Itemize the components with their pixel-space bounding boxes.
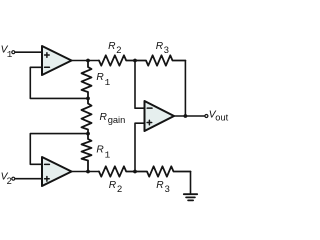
- svg-text:3: 3: [165, 184, 170, 194]
- wire V2 lead: [15, 178, 42, 180]
- svg-text:out: out: [215, 113, 228, 123]
- svg-text:R: R: [156, 180, 164, 191]
- node B2 junction: [86, 132, 90, 136]
- resistor R3 bottom: [135, 166, 191, 176]
- wire node D1 to U3 minus input: [135, 61, 145, 109]
- ground: [184, 194, 197, 200]
- wire V1 lead: [15, 51, 42, 53]
- node A junction: [86, 59, 90, 63]
- wire U1 feedback: [30, 67, 88, 98]
- svg-text:2: 2: [116, 45, 121, 55]
- svg-text:R: R: [96, 72, 104, 83]
- svg-text:2: 2: [7, 176, 12, 186]
- wire ground lead: [190, 172, 192, 194]
- svg-text:R: R: [100, 112, 108, 123]
- op-amp U3 plus pin: [147, 120, 152, 125]
- wire node D2 to U3 plus input: [135, 123, 145, 171]
- node C junction: [86, 170, 90, 174]
- node D1 junction top: [133, 59, 137, 63]
- op-amp U3 minus pin: [147, 107, 152, 109]
- resistor R3 top: [135, 55, 185, 65]
- svg-text:2: 2: [117, 184, 122, 194]
- svg-text:3: 3: [164, 45, 169, 55]
- wire U1 output to node A: [72, 60, 100, 62]
- node V1 terminal: [12, 51, 15, 54]
- svg-text:1: 1: [105, 77, 111, 88]
- op-amp U1 plus pin: [45, 53, 50, 58]
- svg-text:1: 1: [7, 49, 13, 60]
- resistor R2 bottom: [99, 166, 135, 176]
- wire U2 output to node C: [72, 171, 100, 173]
- svg-text:1: 1: [105, 149, 111, 160]
- op-amp U2: [42, 157, 72, 186]
- node V2 terminal: [12, 177, 15, 180]
- op-amp U3: [145, 101, 175, 131]
- wire R3 top feedback down: [184, 61, 186, 117]
- op-amp U1: [42, 46, 72, 75]
- svg-text:R: R: [96, 145, 104, 156]
- node B1 junction: [86, 97, 90, 101]
- op-amp U2 minus pin: [45, 163, 50, 165]
- op-amp U2 plus pin: [45, 177, 50, 182]
- svg-text:R: R: [109, 180, 117, 191]
- node output junction: [184, 114, 188, 118]
- svg-text:gain: gain: [108, 115, 126, 125]
- node D2 junction bottom: [133, 170, 137, 174]
- resistor R1 bottom: [82, 134, 92, 172]
- wire U3 output: [174, 115, 205, 117]
- resistor R2 top: [99, 55, 135, 65]
- node Vout terminal: [205, 115, 208, 118]
- resistor Rgain: [82, 98, 92, 133]
- resistor R1 top: [82, 61, 92, 99]
- svg-text:R: R: [156, 41, 164, 52]
- op-amp U1 minus pin: [45, 66, 50, 68]
- wire U2 feedback: [30, 134, 88, 165]
- svg-text:R: R: [108, 41, 116, 52]
